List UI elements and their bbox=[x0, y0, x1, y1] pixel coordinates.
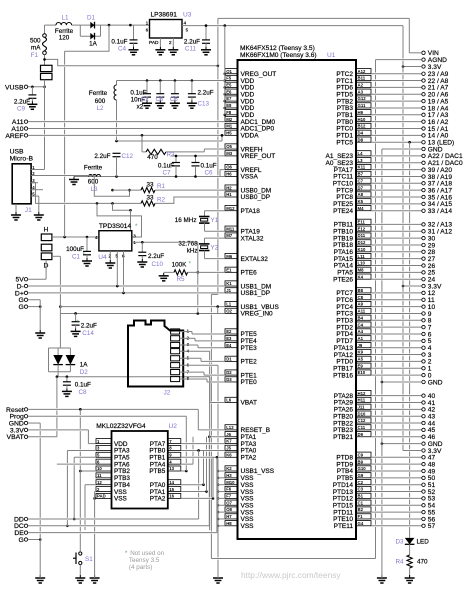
U1 pin A3 PTD5 to pad 20 / A6 bbox=[356, 89, 371, 94]
svg-text:A11: A11 bbox=[358, 309, 366, 314]
svg-text:G4: G4 bbox=[358, 521, 364, 526]
svg-text:VREF_OUT: VREF_OUT bbox=[241, 153, 276, 160]
svg-text:100K: 100K bbox=[172, 262, 188, 269]
wire U4 out to VREG_IN0 bbox=[197, 242, 199, 285]
U1 pin C4 PTD2 to pad 7 bbox=[356, 322, 371, 327]
svg-text:B12: B12 bbox=[358, 124, 366, 129]
U1 pin B12 PTC0 to pad 15 / A1 bbox=[356, 123, 371, 128]
U1 pin A11 PTC3 to pad 9 bbox=[356, 308, 371, 313]
svg-text:C3: C3 bbox=[358, 487, 364, 492]
svg-text:PTB16: PTB16 bbox=[333, 372, 353, 379]
capacitor C1 100uF bbox=[86, 236, 89, 239]
svg-text:16 MHz: 16 MHz bbox=[175, 217, 197, 224]
svg-text:H6: H6 bbox=[226, 172, 232, 177]
wire VIN top bbox=[218, 17, 409, 19]
U2 pin 7 PTA7 bbox=[168, 439, 181, 444]
wire 3.3V rail right bbox=[186, 25, 403, 27]
svg-text:C7: C7 bbox=[162, 170, 171, 177]
U1 pin M2 ADC1_DM0 bbox=[225, 116, 238, 121]
U1 pin C7 PTC10 to pad 37 / A18 bbox=[356, 178, 371, 183]
wire U2 PTA7 to U1 PTA3 bbox=[181, 443, 225, 445]
U3 pin2 to ground bbox=[172, 38, 174, 47]
inductor L3 Ferrite 600 bbox=[89, 175, 101, 177]
svg-text:MKL02Z32VFG4: MKL02Z32VFG4 bbox=[96, 423, 146, 430]
wire U2 PTB4 down bbox=[84, 485, 86, 518]
wire U2 VSS pins bbox=[95, 491, 96, 493]
svg-text:0.1uF: 0.1uF bbox=[75, 382, 91, 389]
ground J1 pin5 bbox=[38, 212, 40, 215]
svg-text:mA: mA bbox=[31, 45, 41, 52]
U1 pin H7 VSS bbox=[225, 514, 238, 519]
U1 pin B7 PTC11 to pad 38 / A19 bbox=[356, 171, 371, 176]
svg-text:470: 470 bbox=[147, 154, 158, 161]
svg-text:D3: D3 bbox=[226, 377, 232, 382]
wire C12 to AGND bbox=[116, 157, 118, 177]
pad 3.3V bbox=[422, 65, 425, 68]
svg-text:M7: M7 bbox=[226, 233, 233, 238]
svg-text:32.768: 32.768 bbox=[178, 240, 198, 247]
wire D2 out to VBAT pin bbox=[57, 372, 59, 377]
wire D pad to VREG_IN bbox=[52, 255, 61, 257]
U1 pin H11 PTA29 to pad 41 bbox=[356, 397, 371, 402]
svg-text:VSSA: VSSA bbox=[241, 174, 259, 181]
svg-text:PTE26: PTE26 bbox=[333, 276, 353, 283]
regulator U3 LP38691 bbox=[150, 20, 183, 39]
svg-text:EXTAL32: EXTAL32 bbox=[241, 256, 269, 263]
svg-text:H: H bbox=[44, 227, 49, 234]
svg-text:C13: C13 bbox=[198, 101, 210, 108]
svg-text:A1: A1 bbox=[358, 336, 364, 341]
svg-text:kHz: kHz bbox=[187, 247, 198, 254]
svg-text:PTE6: PTE6 bbox=[241, 270, 258, 277]
pad 3.3V bbox=[422, 449, 425, 452]
U1 pin D9 PTB21 to pad 46 bbox=[356, 432, 371, 437]
U1 pin J1 USB1_DP bbox=[225, 288, 238, 293]
wire U2 PTA2 bbox=[181, 497, 213, 499]
svg-text:VBAT: VBAT bbox=[7, 434, 24, 441]
svg-text:B2: B2 bbox=[358, 507, 364, 512]
wire VIN to C1 node rail bbox=[64, 51, 66, 64]
wire 3.3V pad to U2 VDD bbox=[28, 429, 89, 431]
svg-text:Ferrite: Ferrite bbox=[89, 90, 108, 97]
U1 pin D7 PTC9 to pad 36 / A17 bbox=[356, 185, 371, 190]
U1 pin D12 PTB18 to pad 29 bbox=[356, 240, 371, 245]
svg-text:H7: H7 bbox=[226, 514, 232, 519]
svg-text:57: 57 bbox=[428, 523, 436, 530]
pad VBAT bbox=[24, 435, 27, 438]
wire VREF_OUT bbox=[171, 155, 225, 157]
svg-text:M2: M2 bbox=[226, 117, 233, 122]
svg-text:B9: B9 bbox=[358, 459, 364, 464]
wire DC riser bbox=[208, 437, 210, 443]
svg-text:G: G bbox=[19, 537, 24, 544]
U1 pin F1 PTE10 to pad 56 bbox=[356, 514, 371, 519]
wire vertical x=60.4 bbox=[59, 313, 61, 348]
U2 pin 2 VSS bbox=[96, 487, 112, 492]
wire GND pad rail bbox=[39, 423, 41, 429]
svg-text:H12: H12 bbox=[358, 391, 366, 396]
pad GND bbox=[422, 147, 425, 150]
svg-text:D1: D1 bbox=[87, 15, 96, 22]
wire VSS bus bbox=[217, 470, 220, 473]
pad A11 bbox=[24, 120, 27, 123]
capacitor C11 2.2uF bbox=[205, 26, 207, 40]
svg-text:H9: H9 bbox=[358, 110, 364, 115]
wire G bottom to ground bbox=[28, 539, 40, 541]
U1 pin F6 VSS bbox=[225, 486, 238, 491]
IC U2 MKL02Z32VFG4 bbox=[112, 431, 168, 509]
U1 pin M4 PTE24 to pad 33 / A14 bbox=[356, 206, 371, 211]
wire U2 PTB1 bbox=[181, 456, 217, 458]
svg-text:600: 600 bbox=[88, 179, 99, 186]
svg-text:PTA18: PTA18 bbox=[241, 208, 261, 215]
svg-text:K5: K5 bbox=[358, 199, 364, 204]
wire SD DAT1 to PTE0 bbox=[180, 378, 207, 380]
svg-text:M4: M4 bbox=[358, 206, 365, 211]
U1 pin L1 USB1_VBUS bbox=[225, 301, 238, 306]
svg-text:E2: E2 bbox=[226, 329, 232, 334]
U1 pin L12 RESET_B bbox=[225, 425, 238, 430]
svg-text:D2: D2 bbox=[226, 370, 232, 375]
svg-text:K9: K9 bbox=[358, 350, 364, 355]
wire U2 PTA5 to DD bbox=[74, 456, 96, 458]
svg-text:J1: J1 bbox=[25, 207, 32, 214]
svg-text:33: 33 bbox=[146, 195, 154, 202]
crystal Y1 16 MHz bbox=[205, 210, 226, 212]
svg-text:J1: J1 bbox=[226, 288, 231, 293]
svg-text:O2: O2 bbox=[226, 309, 232, 314]
svg-text:C9: C9 bbox=[358, 452, 364, 457]
svg-text:C12: C12 bbox=[122, 153, 134, 160]
pad GND bbox=[422, 380, 425, 383]
svg-text:C3: C3 bbox=[156, 97, 164, 103]
U1 pin E12 PTB10 to pad 31 / A12 bbox=[356, 226, 371, 231]
svg-text:E4: E4 bbox=[226, 343, 232, 348]
U1 pin M10 VSS bbox=[225, 480, 238, 485]
svg-text:D8: D8 bbox=[358, 137, 364, 142]
svg-text:LED: LED bbox=[417, 539, 430, 546]
svg-text:K11: K11 bbox=[358, 165, 366, 170]
inductor L1 Ferrite 120 bbox=[45, 24, 57, 26]
svg-text:E7: E7 bbox=[226, 96, 232, 101]
U2 pin 8 PTB0 bbox=[168, 445, 181, 450]
resistor R2 33 bbox=[141, 201, 155, 206]
svg-text:(4 parts): (4 parts) bbox=[129, 564, 152, 571]
svg-text:VDDA: VDDA bbox=[241, 133, 260, 140]
U1 pin C9 PTD8 to pad 47 bbox=[356, 452, 371, 457]
svg-text:120: 120 bbox=[59, 34, 70, 41]
wire VIN riser bbox=[408, 18, 410, 52]
U1 pin F7 VSS bbox=[225, 493, 238, 498]
svg-text:M3: M3 bbox=[226, 151, 233, 156]
pad G bbox=[24, 298, 27, 301]
U1 pin L3 A0_SE23 to pad A21 / DAC0 bbox=[356, 158, 371, 163]
svg-text:VBAT: VBAT bbox=[241, 400, 258, 407]
U1 pin H8 VSS bbox=[225, 521, 238, 526]
svg-text:D7: D7 bbox=[358, 185, 364, 190]
U1 pin H10 PTB0 to pad 16 / A2 bbox=[356, 116, 371, 121]
U1 pin A8 PTC8 to pad 35 / A16 bbox=[356, 192, 371, 197]
U2 pin 1 VDD bbox=[96, 439, 112, 444]
svg-text:2: 2 bbox=[169, 40, 172, 46]
svg-text:S1: S1 bbox=[85, 556, 93, 563]
wire DC to PTA1 bbox=[28, 525, 209, 527]
U2 pin 3 PTA3 bbox=[96, 445, 112, 450]
svg-text:J6: J6 bbox=[226, 432, 231, 437]
U1 pin M8 PTA5 to pad 25 bbox=[356, 267, 371, 272]
svg-text:470: 470 bbox=[417, 559, 428, 566]
U1 pin H3 VSS bbox=[225, 473, 238, 478]
svg-text:E1: E1 bbox=[226, 267, 232, 272]
wire D- line bbox=[28, 285, 225, 287]
wire U4 out pin1 bbox=[132, 241, 198, 243]
pad 3.3V bbox=[24, 428, 27, 431]
svg-text:L1: L1 bbox=[61, 15, 69, 22]
svg-text:J11: J11 bbox=[358, 404, 366, 409]
pad DC bbox=[24, 524, 27, 527]
svg-text:G11: G11 bbox=[358, 103, 366, 108]
U1 pin J6 PTA1 bbox=[225, 432, 238, 437]
svg-text:R1: R1 bbox=[157, 183, 166, 190]
svg-text:2.2uF: 2.2uF bbox=[148, 253, 164, 260]
svg-text:K4: K4 bbox=[358, 274, 364, 279]
svg-text:USB0_DP: USB0_DP bbox=[241, 194, 271, 201]
svg-text:MK64FX512 (Teensy 3.5): MK64FX512 (Teensy 3.5) bbox=[240, 45, 315, 52]
U1 pin G10 PTB4 to pad 49 bbox=[356, 466, 371, 471]
LED D3 bbox=[405, 538, 415, 544]
svg-text:H8: H8 bbox=[226, 521, 232, 526]
svg-text:PTA2: PTA2 bbox=[241, 455, 257, 462]
svg-text:L6: L6 bbox=[226, 398, 232, 403]
svg-text:6: 6 bbox=[146, 27, 149, 32]
wire DD to PTA0 bbox=[28, 518, 199, 520]
solder pads H D jumper bbox=[41, 234, 52, 241]
wire L2 to VDDA bbox=[116, 100, 118, 121]
svg-text:U3: U3 bbox=[183, 12, 192, 19]
U1 pin K7 PTA3 bbox=[225, 438, 238, 443]
svg-text:0.1uF: 0.1uF bbox=[130, 90, 146, 97]
svg-text:3: 3 bbox=[133, 234, 136, 239]
wire VREFL VSSA AGND bbox=[74, 176, 225, 178]
U1 pin C1 PTD15 to pad 54 bbox=[356, 500, 371, 505]
svg-text:600: 600 bbox=[95, 98, 106, 105]
svg-text:L12: L12 bbox=[226, 425, 234, 430]
U1 pin G4 PTE11 to pad 57 bbox=[356, 521, 371, 526]
wire VBAT pad riser bbox=[56, 377, 58, 409]
U1 pin D1 PTE2 bbox=[225, 356, 238, 361]
svg-text:G: G bbox=[19, 304, 24, 311]
U1 pin H9 PTB1 to pad 17 / A3 bbox=[356, 110, 371, 115]
svg-text:C10: C10 bbox=[152, 261, 164, 268]
wire U2 PTA1 riser bbox=[206, 437, 208, 443]
svg-text:LP38691: LP38691 bbox=[151, 12, 178, 19]
svg-text:R4: R4 bbox=[395, 559, 404, 566]
U1 pin E6 VDD bbox=[225, 89, 238, 94]
U1 pin L11 PTA15 to pad 27 bbox=[356, 253, 371, 258]
pad GND bbox=[422, 442, 425, 445]
svg-text:16: 16 bbox=[169, 494, 174, 499]
capacitor C8 0.1uF bbox=[66, 377, 68, 382]
svg-text:5: 5 bbox=[186, 27, 189, 32]
svg-text:PTC5: PTC5 bbox=[336, 139, 353, 146]
connector J2 micro SD bbox=[128, 321, 183, 387]
U1 pin A9 PTC4 to pad 10 bbox=[356, 301, 371, 306]
U1 pin K1 USB1_DM bbox=[225, 281, 238, 286]
svg-text:M11: M11 bbox=[226, 226, 235, 231]
svg-text:2.2uF: 2.2uF bbox=[94, 153, 110, 160]
ground under R4 bbox=[409, 575, 411, 578]
U1 pin B9 PTD9 to pad 48 bbox=[356, 459, 371, 464]
wire U2 PTB5 bbox=[181, 470, 187, 472]
svg-text:D11: D11 bbox=[358, 233, 366, 238]
svg-text:C8: C8 bbox=[358, 295, 364, 300]
svg-text:K7: K7 bbox=[226, 439, 232, 444]
svg-text:15: 15 bbox=[169, 487, 174, 492]
capacitor C5 bbox=[174, 79, 177, 82]
wire AGND rail bbox=[375, 60, 377, 73]
svg-text:H3: H3 bbox=[226, 473, 232, 478]
svg-text:J9: J9 bbox=[358, 343, 363, 348]
wire U2 PTA5 to DD riser bbox=[73, 457, 75, 463]
ground U2 VSS bbox=[94, 575, 96, 578]
U2 pin 11 PTB3 bbox=[96, 473, 112, 478]
wire Reset to S1 bbox=[79, 409, 81, 415]
svg-text:TPD3S014: TPD3S014 bbox=[99, 223, 132, 230]
svg-text:L2: L2 bbox=[96, 105, 104, 112]
svg-text:L11: L11 bbox=[358, 254, 366, 259]
svg-text:R5: R5 bbox=[177, 276, 186, 283]
svg-text:L1: L1 bbox=[226, 302, 232, 307]
svg-text:C1: C1 bbox=[72, 253, 81, 260]
svg-text:J5: J5 bbox=[226, 446, 231, 451]
wire SD CMD to PTE3 bbox=[180, 344, 198, 346]
wire SD VDD riser bbox=[209, 351, 211, 360]
pad GND bbox=[24, 421, 27, 424]
svg-text:C1: C1 bbox=[358, 500, 364, 505]
svg-text:O8: O8 bbox=[226, 507, 232, 512]
U1 pin B2 PTD11 to pad 55 bbox=[356, 507, 371, 512]
wire U2 PTB0 bbox=[181, 449, 199, 451]
U1 pin E3 PTE4 bbox=[225, 336, 238, 341]
wire VUSB bus upper bbox=[217, 66, 219, 80]
svg-text:A2: A2 bbox=[358, 83, 364, 88]
svg-text:D12: D12 bbox=[358, 240, 366, 245]
svg-text:C11: C11 bbox=[358, 425, 366, 430]
svg-text:0.1uF: 0.1uF bbox=[158, 163, 174, 170]
svg-text:PAD: PAD bbox=[97, 494, 106, 499]
wire D pad to VREG_IN0 bbox=[59, 256, 61, 285]
svg-text:U4: U4 bbox=[98, 254, 107, 261]
U1 pin O8 VSS bbox=[225, 507, 238, 512]
U1 pin G12 PTB2 to pad 19 / A5 bbox=[356, 96, 371, 101]
U1 pin M6 EXTAL32 bbox=[225, 253, 238, 258]
wire J1 gnd bbox=[37, 195, 40, 197]
ground G pads bbox=[39, 330, 41, 333]
svg-text:4: 4 bbox=[184, 20, 187, 25]
U1 pin E4 PTE3 bbox=[225, 343, 238, 348]
wire VSS bus bbox=[217, 365, 219, 374]
wire AGND pad bbox=[376, 59, 422, 61]
svg-text:L10: L10 bbox=[358, 261, 366, 266]
capacitor C3 bbox=[159, 79, 162, 82]
capacitor C6 0.1uF bbox=[195, 156, 197, 163]
capacitor C13 bbox=[191, 79, 194, 82]
svg-text:D1: D1 bbox=[226, 357, 232, 362]
svg-text:B7: B7 bbox=[358, 172, 364, 177]
svg-text:USB: USB bbox=[10, 148, 24, 155]
U1 pin K4 PTE26 to pad 24 bbox=[356, 274, 371, 279]
U1 pin B11 PTC1 to pad 22 / A8 bbox=[356, 75, 371, 80]
U3 PAD pin to ground bbox=[159, 38, 161, 47]
svg-text:O1: O1 bbox=[226, 69, 232, 74]
svg-text:XTAL32: XTAL32 bbox=[241, 235, 264, 242]
wire SD DAT0 to PTE1 bbox=[180, 371, 204, 373]
svg-text:http://www.pjrc.com/teensy: http://www.pjrc.com/teensy bbox=[241, 570, 341, 580]
pad A10 bbox=[24, 127, 27, 130]
svg-text:F5: F5 bbox=[226, 76, 232, 81]
pad Prog bbox=[24, 415, 27, 418]
svg-text:Micro-B: Micro-B bbox=[10, 155, 34, 162]
svg-text:B1: B1 bbox=[358, 494, 364, 499]
svg-text:R3: R3 bbox=[167, 152, 176, 159]
U2 pin 14 PTA0 bbox=[168, 480, 181, 485]
U1 pin E8 VDD bbox=[225, 103, 238, 108]
wire 3.3V VDD bus bbox=[224, 26, 226, 115]
svg-text:C2: C2 bbox=[141, 97, 149, 103]
svg-text:K6: K6 bbox=[226, 452, 232, 457]
capacitor C2 bbox=[146, 79, 149, 82]
wire U2 PTA4 bbox=[181, 463, 193, 465]
svg-text:O5: O5 bbox=[226, 144, 232, 149]
svg-text:2.2uF: 2.2uF bbox=[184, 39, 200, 46]
fuse F1 500mA bbox=[44, 25, 46, 34]
wire U2 PTA3 to DC riser bbox=[66, 450, 68, 463]
svg-text:D2: D2 bbox=[80, 369, 89, 376]
U1 pin H12 PTA28 to pad 40 bbox=[356, 390, 371, 395]
U1 pin E9 PTB17 to pad 1 bbox=[356, 363, 371, 368]
U1 pin H2 USB0_DM bbox=[225, 185, 238, 190]
wire VIN to C1 node bbox=[65, 25, 109, 51]
wire D1 to U3 input bbox=[101, 24, 150, 26]
U1 pin M3 VREF_OUT bbox=[225, 151, 238, 156]
svg-text:3.3V: 3.3V bbox=[428, 283, 442, 290]
U1 pin O6 VREFL bbox=[225, 164, 238, 169]
pad DE bbox=[24, 531, 27, 534]
wire U2 PTB2 to reset bbox=[80, 470, 96, 472]
U1 pin A4 PTD4 to pad 6 bbox=[356, 329, 371, 334]
wire GND rail bbox=[381, 149, 383, 155]
svg-text:M10: M10 bbox=[226, 480, 235, 485]
svg-text:D10: D10 bbox=[358, 411, 366, 416]
wire Prog bbox=[28, 415, 186, 417]
svg-text:PTE11: PTE11 bbox=[334, 523, 354, 530]
svg-text:500: 500 bbox=[30, 38, 41, 45]
U4 pin2 ground bbox=[109, 251, 111, 260]
svg-text:C7: C7 bbox=[358, 178, 364, 183]
svg-text:VUSB: VUSB bbox=[5, 84, 24, 91]
svg-text:O7: O7 bbox=[226, 500, 232, 505]
resistor R4 470 bbox=[407, 555, 412, 568]
svg-text:GND: GND bbox=[428, 146, 443, 153]
U1 pin E10 PTB16 to pad 0 bbox=[356, 370, 371, 375]
ground J1 shell bbox=[15, 204, 17, 212]
svg-text:A12: A12 bbox=[358, 69, 366, 74]
wire DE riser bbox=[216, 457, 218, 532]
U1 pin D10 PTB20 to pad 43 bbox=[356, 411, 371, 416]
pad AREF bbox=[24, 134, 27, 137]
connector J1 USB Micro-B bbox=[12, 164, 31, 204]
U1 pin O2 VREG_IN0 bbox=[225, 308, 238, 313]
